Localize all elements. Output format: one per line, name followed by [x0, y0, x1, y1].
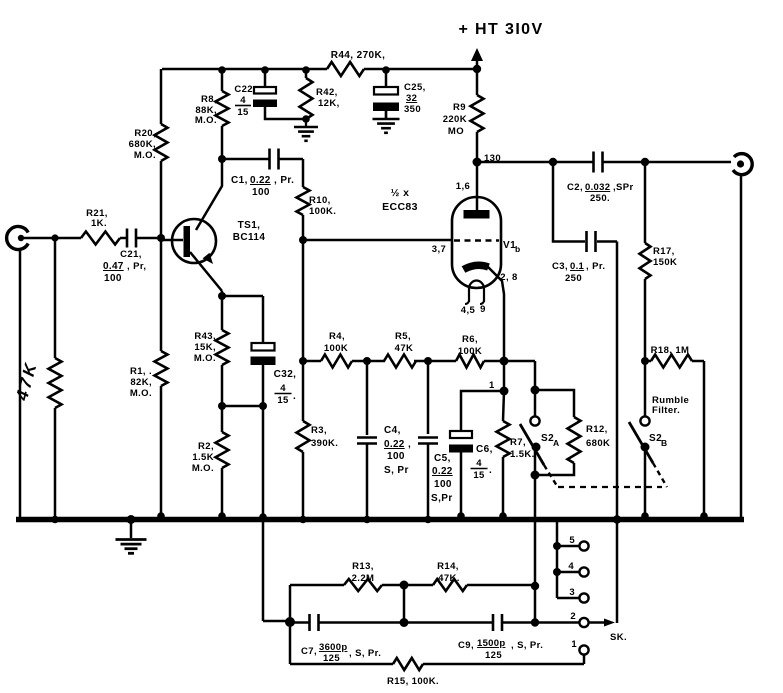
wire anode row [477, 161, 594, 164]
svg-text:C6,: C6, [476, 444, 493, 455]
svg-text:1: 1 [489, 380, 495, 391]
svg-text:R20,: R20, [134, 128, 156, 139]
wire R2 bottom [221, 468, 224, 517]
svg-text:1.5K: 1.5K [192, 452, 214, 463]
svg-text:C5,: C5, [434, 453, 451, 464]
wire input row [24, 237, 81, 240]
input jack [7, 226, 29, 249]
svg-text:350: 350 [404, 104, 421, 115]
wire top HT rail [162, 68, 477, 71]
svg-text:15: 15 [237, 107, 249, 118]
resistor R44 [327, 62, 364, 76]
svg-text:R18, 1M: R18, 1M [651, 345, 690, 356]
junction bus x303 [299, 516, 307, 524]
svg-text:R44, 270K,: R44, 270K, [331, 50, 386, 61]
wire C32 bottom [262, 358, 265, 518]
svg-text:R5,: R5, [395, 331, 411, 342]
node cathode tap [484, 360, 535, 363]
svg-text:TS1,: TS1, [238, 220, 261, 231]
svg-text:4,5: 4,5 [461, 305, 476, 316]
wire sk pin1 leg [583, 655, 586, 665]
wire grid row [303, 239, 453, 242]
svg-text:250: 250 [565, 273, 582, 284]
svg-text:R3,: R3, [311, 425, 327, 436]
wire R43-R2 [221, 365, 224, 432]
transistor TS1 emitter [190, 252, 222, 291]
wire sk pin3 [557, 597, 579, 600]
wire col161 mid [160, 161, 163, 351]
svg-text:15: 15 [277, 395, 289, 406]
resistor R15 [290, 663, 393, 666]
node C7 left [263, 620, 290, 623]
svg-text:0.032: 0.032 [585, 182, 610, 193]
svg-text:B: B [661, 438, 668, 448]
svg-text:15K,: 15K, [194, 342, 216, 353]
svg-text:M.O.: M.O. [130, 388, 152, 399]
svg-text:, Pr.: , Pr. [274, 175, 294, 186]
capacitor C25 [385, 69, 388, 87]
switch S2A arm [520, 424, 544, 465]
svg-text:S,Pr: S,Pr [431, 493, 453, 504]
wire S2A bottom [534, 447, 537, 519]
resistor R7 [503, 391, 504, 421]
resistor R8 [216, 91, 229, 126]
output jack [733, 154, 752, 175]
svg-text:C32,: C32, [274, 369, 297, 380]
svg-text:12K,: 12K, [318, 98, 340, 109]
resistor R3 [302, 361, 305, 421]
tube heater [469, 280, 484, 302]
svg-text:2: 2 [570, 611, 576, 622]
svg-text:M.O.: M.O. [192, 463, 214, 474]
svg-text:220K: 220K [443, 114, 467, 125]
svg-text:R12,: R12, [586, 424, 608, 435]
svg-text:+ HT 3I0V: + HT 3I0V [458, 21, 543, 38]
svg-text:2, 8: 2, 8 [500, 272, 517, 283]
svg-text:ECC83: ECC83 [382, 201, 418, 213]
svg-text:680K,: 680K, [129, 139, 156, 150]
svg-text:9: 9 [480, 304, 486, 315]
socket pin 2 [579, 618, 588, 627]
resistor R1 [155, 351, 168, 386]
svg-text:C22: C22 [234, 84, 253, 95]
svg-text:1,6: 1,6 [456, 181, 470, 192]
wire R7 bottom [502, 457, 505, 517]
svg-text:4: 4 [568, 561, 574, 572]
resistor R21 [81, 232, 120, 245]
svg-text:C1,: C1, [231, 175, 248, 186]
node 47K top [54, 238, 57, 358]
svg-text:R13,: R13, [352, 561, 374, 572]
resistor R5 [384, 355, 416, 368]
svg-text:0.22: 0.22 [250, 175, 271, 186]
svg-text:1.5K.: 1.5K. [510, 449, 535, 460]
svg-text:R14,: R14, [437, 561, 459, 572]
svg-text:M.O.: M.O. [195, 115, 217, 126]
capacitor C32 [252, 343, 275, 351]
svg-text:,SPr: ,SPr [613, 182, 634, 193]
svg-text:R17,: R17, [653, 246, 675, 257]
transistor TS1 body [172, 219, 216, 263]
capacitor C5 [427, 361, 430, 434]
svg-text:R2,: R2, [198, 441, 214, 452]
svg-text:680K: 680K [586, 438, 610, 449]
wire 47K bottom [54, 408, 57, 517]
svg-text:R4,: R4, [329, 331, 345, 342]
svg-text:R42,: R42, [316, 87, 338, 98]
svg-text:2.2M: 2.2M [352, 573, 375, 584]
svg-text:32: 32 [406, 93, 417, 104]
wire S2A top [534, 361, 537, 417]
svg-text:C3,: C3, [552, 261, 568, 272]
wire cathode node [503, 361, 506, 391]
svg-text:82K,: 82K, [130, 377, 152, 388]
resistor R18 [651, 355, 692, 368]
node R17 tap [641, 158, 649, 166]
socket pin 3 [579, 593, 588, 602]
svg-text:, S, Pr.: , S, Pr. [511, 640, 543, 651]
svg-text:3,7: 3,7 [432, 244, 446, 255]
svg-text:4: 4 [280, 383, 286, 394]
resistor R20 [155, 124, 168, 161]
svg-text:390K.: 390K. [311, 438, 338, 449]
svg-text:R7,: R7, [510, 437, 526, 448]
svg-text:4: 4 [476, 458, 482, 469]
svg-text:R10,: R10, [309, 195, 331, 206]
wire sk pin2 [535, 621, 579, 624]
svg-text:250.: 250. [590, 193, 610, 204]
svg-text:150K: 150K [653, 257, 677, 268]
wire col617 [616, 242, 619, 624]
wire base [161, 239, 183, 242]
svg-text:.: . [489, 465, 492, 476]
svg-text:47K.: 47K. [438, 573, 460, 584]
svg-text:0.22: 0.22 [384, 439, 405, 450]
wire emitter-C32 [222, 295, 263, 298]
svg-text:3: 3 [569, 587, 575, 598]
wire C3 branch [553, 162, 585, 242]
junction bus x428 [424, 516, 432, 524]
svg-text:C2,: C2, [567, 182, 583, 193]
svg-text:C21,: C21, [120, 249, 142, 260]
wire input jack ground leg [19, 249, 22, 517]
svg-text:4: 4 [240, 95, 246, 106]
svg-text:R1, .: R1, . [130, 366, 152, 377]
svg-text:125: 125 [323, 653, 340, 664]
capacitor C21 [126, 229, 129, 248]
svg-text:100: 100 [252, 187, 270, 198]
svg-text:C9,: C9, [458, 640, 474, 651]
svg-text:0.47: 0.47 [103, 261, 124, 272]
wire C6 bottom [460, 445, 463, 517]
wire sk arrow [589, 621, 608, 624]
svg-text:100: 100 [387, 451, 405, 462]
svg-text:15: 15 [473, 470, 485, 481]
svg-text:Filter.: Filter. [652, 405, 680, 416]
wire link 404 [403, 585, 406, 623]
svg-text:1K.: 1K. [91, 218, 107, 229]
wire R17-S2B [644, 279, 647, 417]
svg-text:MO: MO [448, 126, 464, 137]
svg-text:100K: 100K [458, 346, 482, 357]
svg-text:47K: 47K [395, 343, 414, 354]
wire collector [196, 159, 222, 230]
wire sk pin5 [557, 545, 579, 548]
svg-text:125: 125 [485, 650, 502, 661]
svg-text:100K: 100K [324, 343, 348, 354]
svg-text:BC114: BC114 [233, 232, 266, 243]
wire col161 bottom [160, 386, 163, 517]
svg-text:b: b [515, 244, 521, 254]
wire R18 right leg [703, 361, 706, 517]
node emitter [221, 291, 224, 330]
wire output jack leg [740, 174, 743, 517]
svg-text:,: , [408, 439, 411, 450]
wire C22 top [264, 69, 267, 87]
wire down leg [289, 622, 292, 664]
svg-text:R15, 100K.: R15, 100K. [387, 676, 439, 687]
wire C22 bottom [265, 107, 306, 119]
wire gnd drop [262, 522, 265, 621]
resistor R12 [535, 390, 574, 417]
svg-text:½ x: ½ x [391, 187, 410, 199]
ground C25 [385, 104, 388, 119]
wire R10-grid [302, 215, 305, 240]
node C5 tap [414, 360, 456, 363]
svg-text:5: 5 [569, 535, 575, 546]
svg-text:, S, Pr.: , S, Pr. [349, 648, 381, 659]
svg-text:100: 100 [104, 273, 122, 284]
wire up leg [289, 585, 292, 621]
wire col161 top [160, 69, 163, 124]
wire socket gnd leg [556, 522, 559, 598]
wire S2B bottom [644, 447, 647, 517]
node 130 [476, 132, 479, 162]
wire col222 to C1 node [221, 126, 224, 159]
svg-text:3600p: 3600p [319, 642, 347, 653]
node C4 tap [352, 360, 385, 363]
svg-text:0.1: 0.1 [570, 261, 585, 272]
resistor 47K [49, 358, 62, 408]
svg-text:C25,: C25, [404, 82, 426, 93]
wire cathode lead [488, 267, 504, 361]
node R13-R14 [400, 581, 409, 590]
node HT 310V [471, 48, 483, 61]
socket pin 5 [579, 541, 588, 550]
socket pin 1 [579, 645, 588, 654]
ground R42 [302, 115, 310, 123]
wire S2A below bus [534, 519, 537, 623]
resistor R6 [456, 355, 484, 368]
capacitor C7 [290, 621, 310, 624]
wire col222 top [221, 69, 224, 91]
svg-text:R6,: R6, [462, 334, 478, 345]
ground main [130, 522, 133, 538]
svg-text:0.22: 0.22 [432, 466, 453, 477]
switch S2B contact [640, 416, 649, 425]
wire anode lead [476, 162, 479, 213]
wire C32 top [262, 296, 265, 343]
junction bus x367 [363, 516, 371, 524]
capacitor C9 [404, 621, 493, 624]
wire ground bus [16, 517, 744, 523]
svg-text:100: 100 [434, 479, 452, 490]
capacitor C1 [222, 158, 270, 161]
resistor R4 [303, 360, 321, 363]
svg-text:.: . [293, 391, 296, 402]
svg-text:M.O.: M.O. [134, 150, 156, 161]
capacitor C4 [366, 361, 369, 435]
svg-text:S, Pr: S, Pr [384, 465, 409, 476]
socket pin 4 [579, 567, 588, 576]
wire gang link [558, 486, 662, 488]
switch S2A contact [530, 416, 539, 425]
svg-text:R9: R9 [453, 102, 466, 113]
resistor R17 [644, 162, 647, 243]
svg-text:100K.: 100K. [309, 206, 336, 217]
resistor R14 [404, 584, 433, 587]
wire R21-C21 [120, 237, 126, 240]
svg-text:M.O.: M.O. [194, 353, 216, 364]
resistor R9 [476, 69, 479, 95]
tube grid [454, 239, 499, 241]
resistor R43 [216, 330, 229, 365]
svg-text:R43,: R43, [194, 331, 216, 342]
svg-text:1: 1 [571, 639, 577, 650]
svg-text:1500p: 1500p [477, 638, 505, 649]
capacitor C3 [585, 231, 588, 252]
wire col303 down [302, 240, 305, 361]
wire C21-base [136, 237, 162, 240]
svg-text:A: A [553, 438, 560, 448]
svg-text:, Pr.: , Pr. [586, 261, 605, 272]
capacitor C2 [592, 152, 595, 173]
tube V1 envelope [452, 197, 501, 288]
node C3 tap [549, 158, 557, 166]
tube anode plate [464, 210, 490, 219]
resistor R13 [290, 584, 344, 587]
resistor R10 [302, 159, 305, 187]
svg-text:SK.: SK. [610, 632, 627, 643]
switch S2B arm [629, 422, 653, 463]
svg-text:, Pr,: , Pr, [127, 261, 146, 272]
capacitor C6 [450, 431, 472, 438]
svg-text:R8,: R8, [201, 94, 217, 105]
wire sk pin4 [557, 571, 579, 574]
capacitor C22 [254, 87, 276, 94]
tube cathode [464, 265, 489, 269]
svg-text:C4,: C4, [384, 425, 401, 436]
resistor R42 [305, 69, 308, 78]
svg-text:C7,: C7, [301, 646, 317, 657]
resistor R2 [216, 432, 229, 468]
wire C6 top [461, 391, 504, 431]
wire R43-C32 link [222, 405, 263, 408]
